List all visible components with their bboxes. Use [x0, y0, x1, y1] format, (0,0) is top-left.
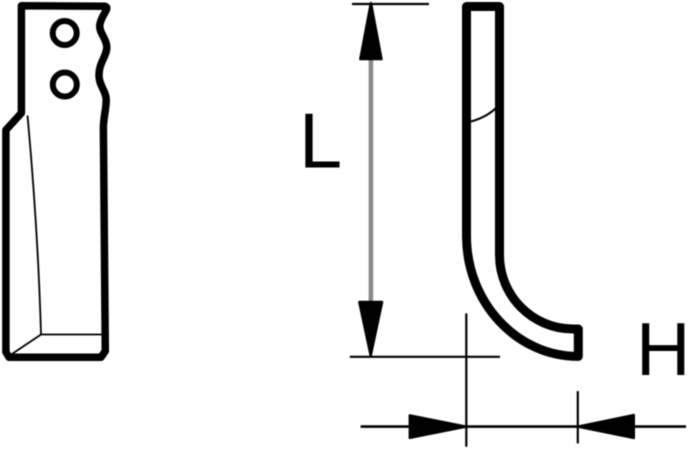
hole 1 [53, 21, 77, 45]
svg-text:L: L [299, 99, 342, 185]
bevel line horizontal [41, 334, 103, 336]
bevel line diagonal [11, 335, 42, 356]
H dimension left arrowhead [410, 416, 466, 438]
H dimension right extension line [577, 391, 579, 443]
L dimension top extension line [352, 3, 429, 5]
H dimension line [361, 425, 686, 428]
H dimension right arrowhead [578, 415, 633, 438]
svg-text:H: H [636, 307, 690, 391]
blade side view outline [467, 7, 579, 357]
bevel line vertical [28, 116, 42, 335]
blade front view outline [6, 6, 107, 357]
L dimension top arrowhead [360, 3, 381, 59]
L dimension shaft [369, 58, 374, 302]
H dimension left extension line [465, 313, 467, 446]
hole 2 [53, 73, 77, 97]
L dimension bottom arrowhead [359, 302, 382, 355]
L dimension bottom extension line [350, 356, 500, 358]
side view transition line [471, 108, 497, 122]
